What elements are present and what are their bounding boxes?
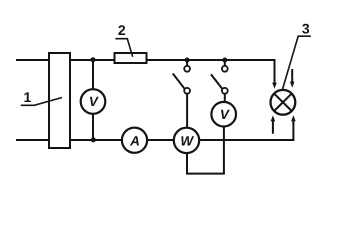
wire: voltmeter V2 bottom crossing to wattmeter voltage loop xyxy=(187,127,224,174)
wire: switch S2 to voltmeter V2 top xyxy=(224,94,226,102)
wire: switch S1 to wattmeter W top xyxy=(186,94,188,128)
regulator box 1 xyxy=(49,53,70,148)
leader line: label 2 xyxy=(115,39,132,57)
junction dot: switch S1 tap xyxy=(185,58,190,63)
leader line: label 1 xyxy=(21,98,62,106)
arrow: lamp bottom-right electrode (to bottom bus) xyxy=(291,115,296,124)
voltmeter V2 xyxy=(211,102,236,127)
wire: wattmeter W to lamp bottom corner xyxy=(199,120,293,140)
arrow: lamp top-left electrode (from top bus) xyxy=(272,82,277,89)
arrow: lamp top-right electrode xyxy=(290,69,295,88)
wire: top bus, box to resistor xyxy=(70,59,114,61)
ammeter A xyxy=(122,128,147,153)
voltmeter V1 xyxy=(81,60,106,140)
wire: bottom-left input stub xyxy=(16,139,48,141)
junction dot: bottom of voltmeter V1 branch xyxy=(91,137,96,142)
lamp 3 xyxy=(271,90,296,115)
junction dot: top of voltmeter V1 branch xyxy=(91,57,96,62)
resistor 2 xyxy=(115,53,147,63)
arrow: lamp bottom-left electrode xyxy=(271,115,276,133)
svg-text:V: V xyxy=(220,107,230,122)
wire: top bus, resistor to right corner, then down to lamp xyxy=(147,60,275,83)
svg-text:A: A xyxy=(129,133,140,148)
svg-text:W: W xyxy=(180,133,194,148)
switch S2 xyxy=(211,60,228,94)
svg-text:V: V xyxy=(89,94,99,109)
svg-text:1: 1 xyxy=(24,89,32,105)
junction dot: switch S2 tap xyxy=(222,58,227,63)
wire: ammeter A to wattmeter W xyxy=(147,139,174,141)
wattmeter W xyxy=(174,128,199,153)
wire: bottom bus, box to ammeter A xyxy=(70,139,122,141)
svg-text:2: 2 xyxy=(118,22,126,38)
leader line: label 3 xyxy=(283,36,311,89)
switch S1 xyxy=(173,60,190,94)
svg-text:3: 3 xyxy=(302,21,310,37)
wire: top-left input stub xyxy=(16,59,48,61)
